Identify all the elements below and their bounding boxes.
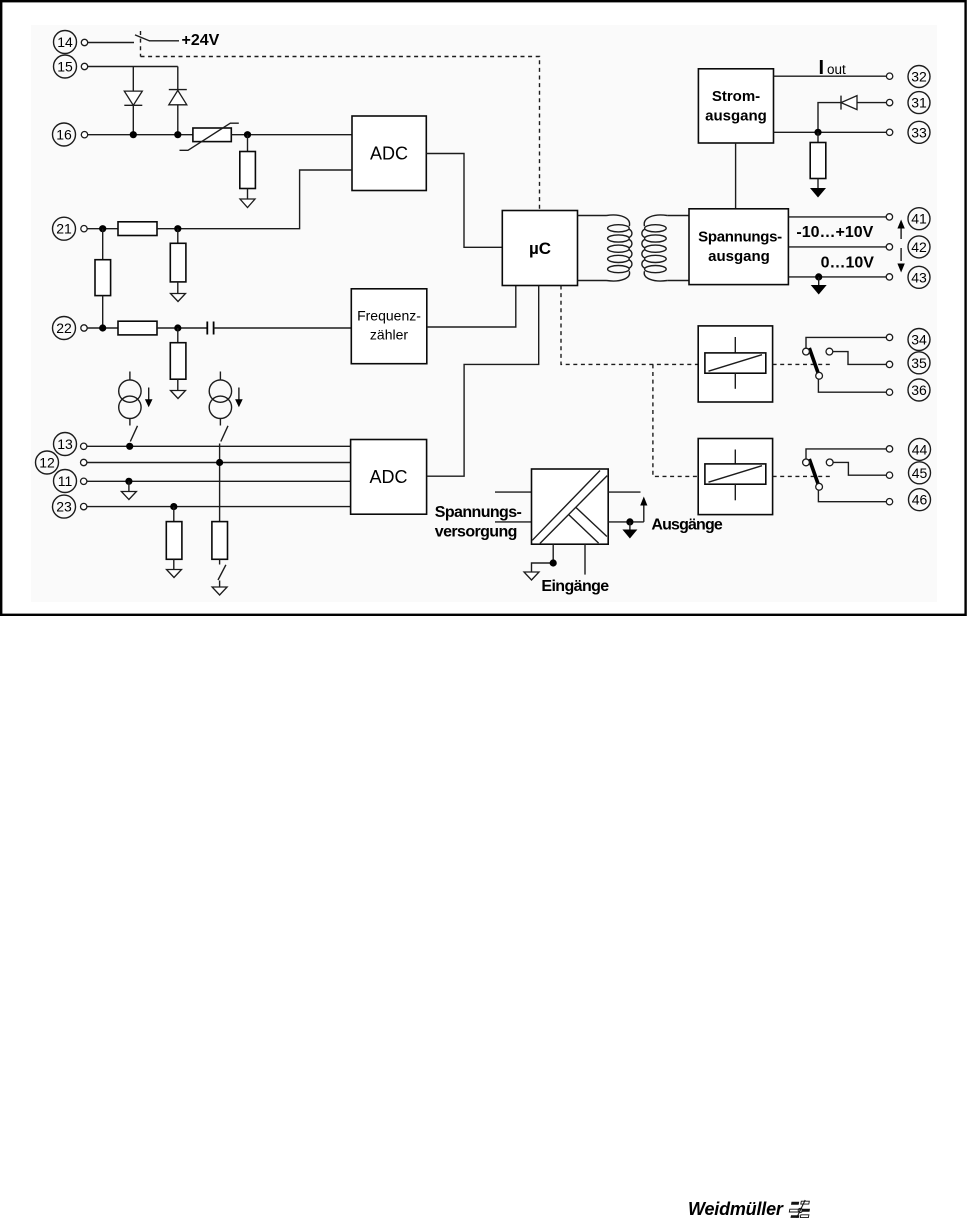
wire I out to terminal 32	[774, 75, 887, 77]
terminal 32	[908, 66, 930, 88]
terminal 41	[908, 208, 930, 230]
svg-text:46: 46	[912, 492, 928, 508]
wire row 42	[788, 246, 886, 248]
terminal 36	[908, 379, 930, 401]
voltage output block	[689, 209, 788, 285]
microcontroller uC	[502, 211, 577, 286]
wire R6 to ground	[177, 379, 179, 390]
svg-text:14: 14	[57, 34, 73, 50]
ground under 11	[121, 481, 136, 499]
label I out	[819, 57, 847, 79]
wire uC to transformer bottom	[578, 280, 607, 282]
dashed control K2 to switch	[773, 475, 833, 477]
relay K1	[698, 326, 772, 402]
node junction input	[550, 559, 557, 566]
wire R5 to capacitor	[157, 327, 207, 329]
relay K2	[698, 439, 772, 515]
arrow for I2	[235, 388, 243, 408]
node junction after R2	[174, 225, 181, 232]
svg-text:13: 13	[57, 436, 73, 452]
node junction output	[626, 518, 633, 525]
wire 11 row	[87, 480, 351, 482]
svg-text:11: 11	[58, 473, 73, 489]
frequency counter block	[351, 289, 427, 364]
wire 15 row	[88, 66, 178, 68]
diode D2 (anode down)	[169, 90, 187, 105]
wire 12 row	[87, 462, 351, 464]
connector pin 14	[81, 39, 87, 45]
arrow for I1	[145, 388, 153, 408]
connector pin 31	[886, 99, 892, 105]
wire to resistor	[247, 135, 249, 152]
wire SW1 pole to 36	[818, 379, 886, 392]
connector pin 36	[886, 389, 892, 395]
connector pin 32	[886, 73, 892, 79]
svg-text:Ausgänge: Ausgänge	[651, 517, 722, 534]
resistor R4 (between 21 and 22)	[95, 229, 111, 328]
node junction 12	[216, 459, 223, 466]
svg-text:ausgang: ausgang	[705, 108, 767, 125]
dashed control uC to relay K1	[561, 286, 698, 365]
node junction 16-D2	[174, 131, 181, 138]
ground (filled arrow)	[810, 188, 826, 198]
connector pin 41	[886, 214, 892, 220]
wire ADC to uC	[426, 154, 502, 248]
svg-text:41: 41	[911, 211, 927, 227]
wire input left	[532, 544, 554, 572]
changeover switch SW2	[803, 459, 834, 490]
wire SW1 common to 34	[806, 337, 886, 348]
ground	[240, 199, 255, 208]
svg-text:ausgang: ausgang	[708, 248, 770, 265]
wire 14 to switch	[88, 42, 134, 44]
node junction 16-D1	[130, 131, 137, 138]
wire SW2 nc contact to 45	[833, 462, 886, 475]
ground	[171, 391, 186, 399]
transformer T1 secondary coil	[642, 215, 667, 281]
wire S4 to ground	[219, 581, 221, 588]
node junction 43	[815, 273, 822, 280]
changeover switch SW1	[803, 348, 833, 379]
wire Stromausgang to Spannungsausgang	[735, 143, 737, 209]
resistor R6	[170, 343, 186, 380]
diode D3 row 31	[818, 96, 886, 133]
terminal 22	[53, 317, 76, 340]
wire 23 to resistor R8	[173, 507, 175, 522]
connector pin 13	[81, 443, 87, 449]
terminal 33	[908, 121, 930, 143]
terminal 31	[908, 92, 930, 114]
node junction 22	[99, 324, 106, 331]
terminal 13	[54, 433, 77, 456]
svg-text:33: 33	[911, 124, 927, 140]
connector pin 42	[886, 244, 892, 250]
Weidmueller logo mark	[789, 1200, 810, 1218]
svg-text:Frequenz-: Frequenz-	[357, 308, 421, 324]
wire row 41	[788, 216, 886, 218]
svg-text:0…10V: 0…10V	[821, 255, 875, 272]
range double arrow 41-43	[897, 220, 904, 273]
terminal 15	[54, 55, 77, 78]
switch S4 blade	[218, 565, 226, 580]
connector pin 46	[886, 499, 892, 505]
ADC U2	[351, 440, 427, 515]
wire capacitor to Frequenzzaehler	[214, 327, 352, 329]
svg-text:32: 32	[911, 69, 927, 85]
wire SW2 common to 44	[806, 449, 886, 459]
svg-text:45: 45	[912, 465, 928, 481]
svg-text:44: 44	[912, 441, 928, 457]
svg-text:ADC: ADC	[370, 144, 408, 164]
node junction after R5	[174, 324, 181, 331]
ADC U1	[352, 116, 426, 191]
connector pin 35	[886, 361, 892, 367]
wire diode branch left	[132, 67, 134, 135]
svg-text:zähler: zähler	[370, 327, 408, 343]
wire switch to +24V	[150, 40, 180, 42]
svg-text:-10…+10V: -10…+10V	[796, 224, 873, 241]
wire I2 column down	[219, 444, 221, 522]
svg-text:34: 34	[911, 332, 927, 348]
svg-text:out: out	[827, 62, 846, 77]
wire 22 row	[87, 327, 118, 329]
svg-text:12: 12	[39, 455, 55, 471]
svg-text:31: 31	[911, 95, 927, 111]
resistor R1	[240, 152, 256, 189]
DC/DC converter U3	[532, 469, 609, 544]
label Spannungsversorgung	[435, 504, 522, 541]
svg-text:+24V: +24V	[182, 32, 220, 49]
wire ADC2 to uC	[427, 286, 539, 477]
node junction after varistor	[244, 131, 251, 138]
svg-text:Strom-: Strom-	[712, 88, 760, 105]
connector pin 33	[886, 129, 892, 135]
resistor R2	[118, 222, 157, 236]
wire R3 to ground	[177, 282, 179, 294]
power supply stub bottom	[495, 521, 532, 523]
connector pin 23	[81, 503, 87, 509]
switch S2 blade	[130, 426, 137, 442]
node junction 11	[125, 478, 132, 485]
svg-text:15: 15	[57, 59, 73, 75]
svg-text:42: 42	[911, 239, 927, 255]
dashed wire to uC top	[141, 57, 540, 211]
connector pin 22	[81, 325, 87, 331]
terminal 11	[54, 470, 77, 493]
scan tint inside frame	[31, 25, 937, 602]
ground (filled arrow) under 43	[811, 277, 827, 295]
wire 23 row	[87, 506, 351, 508]
ground	[167, 570, 182, 578]
current source I2	[209, 372, 231, 426]
wire varistor to ADC	[231, 134, 352, 136]
wire uC to transformer top	[578, 215, 607, 217]
wire to resistor R6	[177, 328, 179, 343]
wire secondary to Spannungsausgang bottom	[667, 280, 689, 282]
wire input right	[584, 544, 586, 574]
wire to resistor R7	[817, 132, 819, 142]
terminal 14	[54, 31, 77, 54]
varistor RV1	[180, 123, 239, 150]
ground	[171, 294, 186, 302]
wire SW1 nc contact to 35	[833, 352, 886, 365]
terminal 45	[909, 462, 931, 484]
svg-text:Spannungs-: Spannungs-	[435, 504, 522, 521]
outer border frame	[1, 1, 965, 615]
current output block	[698, 69, 773, 143]
node junction 23	[170, 503, 177, 510]
node junction 33	[814, 129, 821, 136]
diode D1 (anode up)	[124, 91, 142, 105]
wire SW2 pole to 46	[818, 490, 886, 501]
switch S3 blade	[221, 426, 228, 442]
terminal 34	[908, 329, 930, 351]
wire R9 down	[219, 559, 221, 564]
dashed wire from switch down	[140, 31, 142, 57]
node junction 21	[99, 225, 106, 232]
node junction 13	[126, 443, 133, 450]
ground (filled arrow) under output	[622, 522, 637, 539]
svg-text:35: 35	[911, 355, 927, 371]
wire output top	[608, 491, 640, 493]
connector pin 34	[886, 334, 892, 340]
wire 21 row	[87, 228, 118, 230]
terminal 21	[53, 217, 76, 240]
resistor R7	[810, 143, 826, 179]
svg-text:µC: µC	[529, 239, 551, 258]
ground	[212, 587, 227, 595]
wire R2 to ADC	[157, 170, 352, 229]
wire secondary to Spannungsausgang top	[667, 215, 689, 217]
wire R7 to ground arrow	[817, 179, 819, 189]
terminal 42	[908, 236, 930, 258]
terminal 43	[908, 266, 930, 288]
wire diode branch right	[177, 67, 179, 135]
switch S1 blade	[135, 35, 150, 41]
svg-text:22: 22	[56, 320, 72, 336]
connector pin 43	[886, 274, 892, 280]
connector pin 45	[886, 472, 892, 478]
dashed control branch to relay K2	[653, 364, 698, 476]
connector pin 44	[886, 446, 892, 452]
terminal 16	[53, 123, 76, 146]
wire to resistor R3	[177, 229, 179, 244]
svg-text:ADC: ADC	[369, 467, 407, 487]
connector pin 16	[81, 132, 87, 138]
wire output bottom	[608, 521, 644, 523]
wire resistor to ground	[247, 189, 249, 200]
power supply stub top	[495, 491, 532, 493]
terminal 23	[53, 495, 76, 518]
wire Frequenzzaehler to uC	[427, 286, 516, 328]
wire 16 row	[88, 134, 193, 136]
terminal 44	[909, 438, 931, 460]
current source I1	[119, 372, 141, 426]
ground input	[524, 572, 539, 580]
capacitor C1	[207, 322, 213, 335]
wire row 33	[774, 131, 887, 133]
svg-text:Eingänge: Eingänge	[541, 578, 609, 595]
resistor R9	[212, 522, 228, 560]
svg-text:16: 16	[56, 127, 72, 143]
connector pin 15	[81, 63, 87, 69]
wire 13 row	[87, 445, 351, 447]
terminal 12	[36, 451, 59, 474]
svg-text:43: 43	[911, 269, 927, 285]
svg-text:Spannungs-: Spannungs-	[698, 229, 782, 246]
transformer T1 primary coil	[607, 215, 632, 281]
resistor R8	[166, 522, 182, 560]
terminal 46	[909, 489, 931, 511]
svg-text:Weidmüller: Weidmüller	[688, 1199, 784, 1219]
terminal 35	[908, 352, 930, 374]
svg-text:versorgung: versorgung	[435, 524, 517, 541]
svg-text:21: 21	[56, 221, 72, 237]
dashed control K1 to switch	[773, 363, 832, 365]
connector pin 11	[81, 478, 87, 484]
resistor R5	[118, 321, 157, 335]
wire row 43	[788, 276, 886, 278]
connector pin 21	[81, 226, 87, 232]
connector pin 12	[81, 459, 87, 465]
arrow up Ausgaenge	[640, 497, 647, 522]
resistor R3	[170, 243, 186, 282]
wire R8 to ground	[173, 559, 175, 569]
svg-text:23: 23	[56, 499, 72, 515]
svg-text:36: 36	[911, 382, 927, 398]
svg-text:I: I	[819, 57, 825, 79]
